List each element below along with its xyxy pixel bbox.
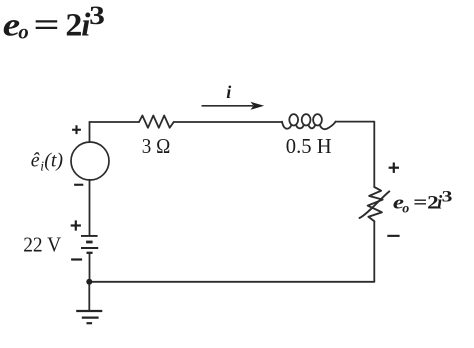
svg-text:22 V: 22 V	[23, 233, 61, 257]
svg-text:i: i	[226, 82, 231, 102]
svg-text:3 Ω: 3 Ω	[142, 134, 171, 158]
svg-text:o: o	[18, 19, 29, 43]
svg-text:(t): (t)	[44, 150, 63, 172]
svg-text:ê: ê	[31, 150, 40, 172]
svg-text:3: 3	[89, 1, 105, 30]
svg-text:=: =	[413, 193, 427, 214]
svg-text:2: 2	[65, 8, 82, 44]
svg-text:3: 3	[442, 189, 453, 206]
svg-text:0.5 H: 0.5 H	[286, 134, 332, 158]
svg-text:o: o	[402, 202, 409, 217]
svg-text:=: =	[33, 8, 59, 44]
